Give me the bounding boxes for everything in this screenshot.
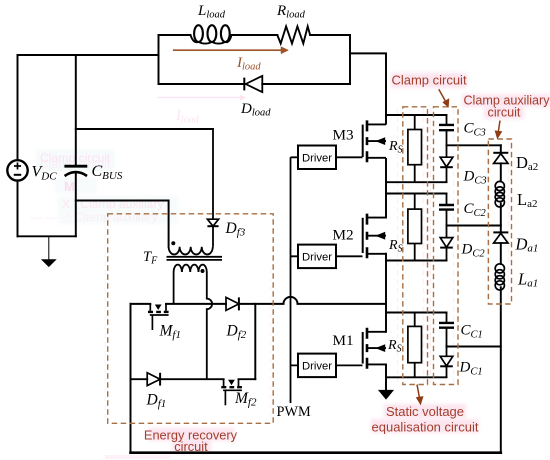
resistor RS (M2) — [408, 194, 422, 261]
resistor RS (M3) — [408, 115, 422, 182]
wire top-left horizontal — [18, 54, 159, 56]
wire ER T branch — [254, 304, 256, 379]
svg-text:M2: M2 — [333, 227, 354, 244]
mosfet Mf2 — [221, 379, 242, 405]
rail M1 source — [386, 376, 447, 378]
svg-text:X Clamp auxiliary: X Clamp auxiliary — [62, 197, 165, 211]
diode Da2 — [493, 153, 508, 164]
resistor Rload — [277, 26, 310, 43]
rail M3 drain — [386, 114, 447, 116]
wire transformer feed — [76, 201, 169, 247]
ghost artifacts (faint print ghosting) — [30, 95, 509, 459]
svg-text:circuit: circuit — [174, 439, 208, 454]
wire CBUS vertical upper — [75, 55, 77, 165]
secondary left terminal — [173, 272, 175, 304]
clamp midpoint wires — [447, 145, 501, 346]
arrow static voltage — [417, 385, 423, 405]
clamp rails — [386, 115, 447, 377]
rail M3 source — [386, 181, 447, 183]
main vertical interconnect — [385, 159, 387, 390]
svg-text:Static voltage: Static voltage — [386, 404, 464, 419]
wire loop left edge — [158, 35, 160, 84]
wire VDC to bottom — [17, 181, 19, 236]
dashed box energy recovery — [108, 214, 274, 423]
wire load to M3 drain jog — [350, 53, 386, 123]
ground (VDC) — [42, 236, 55, 266]
svg-text:— — -^ Clamp auxiliary: — — -^ Clamp auxiliary — [30, 210, 159, 224]
diode Dload — [244, 76, 262, 92]
wire CBUS vertical lower — [75, 173, 77, 236]
dashed box static voltage — [403, 107, 428, 385]
diode DC3 — [440, 157, 453, 182]
core — [167, 257, 223, 260]
svg-text:Driver: Driver — [302, 361, 332, 373]
aux column — [500, 145, 502, 452]
mosfet M1 — [363, 328, 386, 369]
transformer TF — [167, 247, 223, 379]
wire loop right edge — [349, 35, 351, 84]
driver box M2 — [298, 245, 336, 269]
mosfet M2 — [363, 214, 386, 259]
mosfet Mf1 — [148, 304, 169, 330]
diode Df1 — [147, 373, 160, 386]
ground (M1 source) — [379, 390, 393, 399]
bottom rail — [131, 451, 501, 454]
wire bottom VDC loop — [18, 235, 76, 237]
arrow clamp auxiliary — [495, 121, 501, 139]
primary winding — [169, 247, 213, 255]
capacitor CC2 — [439, 194, 454, 238]
load loop — [159, 35, 387, 124]
svg-text:M1: M1 — [333, 332, 354, 349]
wire midpoint M1 to aux — [447, 346, 501, 348]
dashed box clamp auxiliary — [488, 139, 511, 304]
wire ER bottom — [131, 378, 256, 380]
driver box M1 — [298, 354, 336, 378]
PWM bus — [290, 157, 292, 403]
svg-text:PWM: PWM — [277, 404, 311, 420]
driver stubs — [291, 157, 363, 365]
svg-text:M3: M3 — [333, 126, 354, 143]
diode DC1 — [440, 356, 453, 377]
inductor Lload — [191, 25, 232, 43]
dot primary — [171, 241, 175, 245]
wire loop top edge — [159, 34, 351, 36]
dot secondary — [201, 269, 205, 273]
current arrow Iload — [173, 47, 289, 54]
wire Df3 branch horizontal — [76, 128, 213, 130]
diode Da1 — [493, 232, 508, 243]
voltage source VDC — [7, 160, 27, 180]
energy recovery wires — [131, 297, 501, 453]
wire ER left vertical — [130, 304, 132, 453]
rail M2 drain — [386, 193, 447, 195]
mosfet M3 — [363, 120, 386, 162]
svg-text:M: M — [64, 179, 75, 194]
capacitor CBUS — [64, 166, 87, 176]
inductor La1 — [495, 264, 504, 290]
diode Df2 — [226, 297, 239, 310]
glow clamp circuit — [391, 73, 467, 88]
svg-text:equalisation circuit: equalisation circuit — [372, 420, 479, 435]
wire midpoint M2 to Da1 — [447, 225, 501, 227]
rail M2 source — [386, 260, 447, 262]
capacitor CC3 — [439, 115, 454, 157]
diode Df3 — [207, 129, 218, 247]
driver box M3 — [298, 146, 336, 170]
wire midpoint M3 to Da2 — [447, 144, 501, 146]
capacitor CC1 — [439, 313, 454, 357]
rail M1 drain — [386, 312, 447, 314]
wire ER top — [131, 297, 387, 304]
inductor La2 — [495, 181, 504, 207]
diode DC2 — [440, 238, 453, 261]
wire left vertical to VDC — [17, 55, 19, 160]
resistor RS (M1) — [408, 313, 422, 378]
wire loop bottom edge — [159, 83, 351, 85]
secondary winding — [174, 265, 207, 272]
arrow clamp circuit — [439, 89, 449, 107]
dashed box clamp — [434, 107, 459, 385]
svg-text:circuit: circuit — [488, 106, 521, 120]
svg-text:Driver: Driver — [302, 252, 332, 264]
secondary right terminal with hop — [207, 272, 212, 379]
svg-text:Driver: Driver — [302, 152, 332, 164]
svg-text:Clamp circuit: Clamp circuit — [391, 73, 467, 88]
